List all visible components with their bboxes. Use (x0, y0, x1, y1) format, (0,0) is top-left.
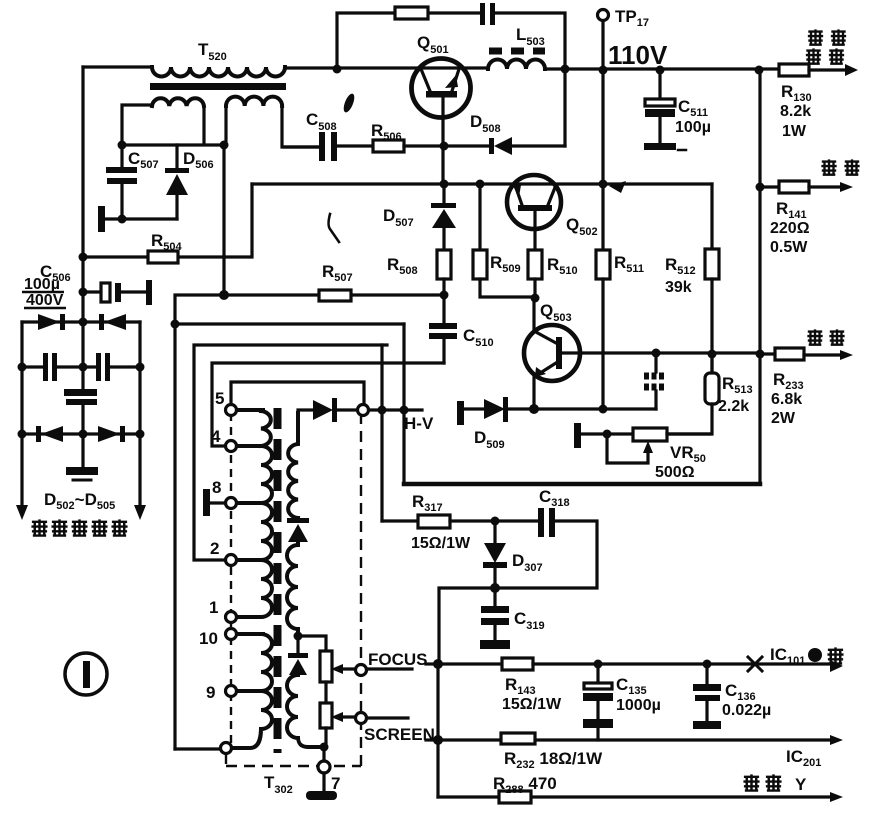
capacitor C506 (83, 283, 146, 302)
wire center tap down to R507 line (222, 145, 225, 295)
T302 HV winding middle section (287, 542, 298, 636)
wire right vertical x760 (758, 70, 761, 483)
inductor L503 (488, 60, 545, 70)
resistor (feedback, unlabeled) (395, 7, 428, 19)
label 频维选择 (806, 29, 846, 64)
pin circle H-V (358, 405, 369, 416)
resistor R288 (438, 791, 843, 803)
wire T302 pin5 loop to H-V node (231, 382, 364, 405)
T302 primary winding section 9-bottom (232, 691, 272, 748)
wire node row y145 (122, 143, 224, 146)
transistor Q503 (524, 325, 580, 381)
wire C507 D506 ground line (104, 217, 177, 220)
resistor R233 (760, 348, 853, 360)
svg-text:15Ω/1W: 15Ω/1W (502, 696, 562, 713)
node A junction dots y145 (118, 141, 127, 150)
wire bottom left row y748 (175, 747, 220, 750)
wire pin2 loop to y345 row (194, 345, 387, 560)
junction dot C136 (703, 660, 712, 669)
ground bridge (66, 467, 98, 480)
wire H-V output (369, 408, 422, 411)
inductor L503 core dashes (489, 48, 545, 55)
svg-text:10: 10 (199, 629, 218, 648)
svg-text:1W: 1W (782, 123, 807, 140)
svg-text:SCREEN: SCREEN (364, 725, 435, 744)
potentiometer VR50 (581, 428, 710, 463)
wire Q503 collector up (532, 298, 535, 331)
diode bridge D502-D505 top row (22, 314, 140, 330)
wire SCREEN stub (367, 716, 408, 719)
svg-text:1000µ: 1000µ (616, 697, 661, 714)
resistor R141 (760, 181, 853, 193)
ground bar D509 (457, 401, 464, 425)
wire long vertical x175 (175, 324, 404, 749)
diode D307 (483, 521, 507, 588)
junction dot y354 R233 (756, 350, 765, 359)
diode HV rectifier 1 (287, 518, 309, 542)
svg-text:H-V: H-V (404, 414, 434, 433)
symbol dot and glyph after IC101 (808, 647, 844, 664)
diode D508 (444, 137, 565, 155)
capacitor C510 (429, 295, 457, 363)
junction dot D307 C319 (490, 583, 500, 593)
junction dot VR50 left (603, 430, 612, 439)
ground bar C506 (146, 280, 152, 305)
capacitor C508 (284, 132, 373, 161)
T302 HV winding top and diode (298, 398, 357, 422)
ground bar C511 (644, 143, 676, 150)
wire secondary right-section right end to C508 (282, 106, 319, 147)
ink blob near C508 label (342, 92, 357, 114)
wire vertical x438 focus-screen-bottom (436, 664, 439, 797)
junction dot y353 cap (652, 349, 661, 358)
wire x382 vertical (380, 345, 383, 521)
transformer T520 secondary winding left section (152, 98, 204, 106)
svg-text:1: 1 (209, 598, 218, 617)
diode D507 (431, 184, 456, 250)
label 至消磁电路 (31, 519, 127, 536)
wire Q503 emitter down (532, 376, 535, 409)
junction dot x337 rail (333, 65, 342, 74)
pin circle FOCUS (356, 665, 367, 676)
svg-text:110V: 110V (608, 40, 668, 70)
junction dot R511 bottom (599, 405, 608, 414)
junction dot R317 D307 (491, 517, 500, 526)
junction dot rail Q501 base (440, 180, 449, 189)
junction dots bridge middle row (18, 363, 27, 372)
wire bridge left branch with arrow (16, 322, 28, 520)
bridge capacitors middle row (22, 353, 140, 381)
junction dot R504 left (79, 253, 88, 262)
svg-text:R288 470: R288 470 (493, 774, 557, 796)
wire collector rail y68 (285, 66, 488, 69)
wire bridge center to ground (81, 405, 84, 467)
T302 pin 8 (226, 498, 237, 509)
capacitor C136 (693, 664, 721, 729)
capacitor (feedback, unlabeled) (480, 3, 495, 25)
wire R507 row (175, 295, 444, 324)
T302 pin 4 (226, 441, 237, 452)
resistor R510 (528, 250, 542, 298)
ground bar left of C507 (98, 206, 105, 232)
wire screen pot to pin7 node (324, 728, 326, 747)
arrow IC101 (830, 660, 843, 672)
T302 core dashes (274, 408, 282, 753)
stray pen mark (329, 214, 340, 242)
potentiometer focus (320, 651, 332, 682)
wire FOCUS stub (367, 667, 412, 670)
junction dots bridge bottom row (18, 430, 27, 439)
svg-text:500Ω: 500Ω (655, 464, 695, 481)
wire top feedback loop (337, 13, 565, 146)
resistor R317 (382, 515, 538, 528)
wire HV tap to focus pot chain (298, 636, 326, 651)
resistor R504 (148, 251, 178, 263)
T302 pin 1 (226, 612, 237, 623)
transformer T520 core (150, 83, 286, 90)
T302 primary winding section 4-8 (237, 446, 272, 503)
diode D506 (165, 145, 189, 219)
label 低放 (821, 159, 859, 175)
ground bar T302 pin8 (203, 489, 225, 516)
junction dot R509 R510 (531, 294, 540, 303)
wire secondary right-section left end tap (224, 106, 227, 145)
junction dot x565 (561, 65, 570, 74)
circled 1 symbol (65, 653, 107, 695)
diode D509 (464, 397, 656, 422)
junction dot HV x382 (378, 406, 387, 415)
pin circle SCREEN (356, 713, 367, 724)
junction dot Q501 base (440, 142, 449, 151)
T302 pin 10 (226, 629, 237, 640)
svg-text:Y: Y (795, 775, 807, 794)
T302 primary winding section 8-2 (237, 503, 272, 560)
wire bridge right branch with arrow (134, 322, 146, 520)
capacitor C511 (645, 70, 675, 143)
svg-text:8.2k: 8.2k (780, 103, 811, 120)
junction dot pin7 node (320, 743, 329, 752)
svg-text:220Ω: 220Ω (770, 220, 810, 237)
test point TP17 (598, 10, 609, 185)
T302 pin column dashed line (230, 413, 232, 743)
T302 dashed box bottom and right (226, 415, 361, 766)
resistor R507 (319, 290, 351, 301)
wire x404 vertical (402, 324, 405, 483)
junction dot HV pot tap (294, 632, 303, 641)
wire Q502 base down (533, 211, 536, 250)
wire R504 row (83, 184, 252, 257)
T302 pin 9 (226, 686, 237, 697)
resistor R143 (438, 658, 832, 670)
junction dot x660 (656, 66, 665, 75)
capacitor C135 (583, 664, 613, 740)
svg-text:2W: 2W (771, 410, 796, 427)
junction dot SCREEN R232 (433, 735, 443, 745)
wiper arrow focus pot (331, 664, 356, 674)
svg-text:4: 4 (211, 427, 221, 446)
T302 primary winding section 10-9 (237, 634, 272, 691)
potentiometer screen (320, 703, 332, 728)
wire emitter rail y184 (252, 182, 712, 185)
svg-text:2.2k: 2.2k (718, 398, 749, 415)
wiper arrow screen pot (331, 712, 356, 722)
T302 HV winding upper section (288, 413, 298, 518)
diode bridge bottom row (22, 426, 140, 442)
junction dot C506 (79, 288, 88, 297)
wire C510 bottom to T302 pin4 (212, 363, 444, 446)
ground bar pin7 (306, 791, 337, 800)
X mark on IC101 line (748, 657, 762, 671)
transformer T520 primary winding (152, 67, 285, 77)
wire Q501 base down (441, 97, 444, 183)
junction dot y354 R512 (708, 350, 717, 359)
svg-text:39k: 39k (665, 279, 692, 296)
svg-text:15Ω/1W: 15Ω/1W (411, 535, 471, 552)
svg-text:400V: 400V (26, 292, 64, 309)
wire left main vertical x83 (81, 67, 84, 389)
arrow mark on rail (609, 181, 626, 193)
wire secondary left-section right end tap (202, 106, 205, 144)
resistor R509 (473, 184, 535, 297)
T302 primary winding section 5-4 (237, 410, 271, 446)
transformer T520 secondary winding right section (226, 97, 282, 106)
wire secondary left end to node (122, 105, 152, 145)
junction dot rail TP17 (599, 180, 608, 189)
T302 bottom left pin circle (221, 743, 232, 754)
svg-text:7: 7 (331, 774, 340, 793)
junction dot x603 (599, 66, 608, 75)
label 视放Y (743, 774, 807, 794)
T302 primary winding section 2-1 (237, 560, 272, 617)
wire FOCUS node stub (426, 662, 438, 665)
junction dot x175 y324 (171, 320, 180, 329)
wire Q503 base row y353 (562, 351, 760, 354)
diode HV rectifier 2 (288, 636, 308, 675)
junction dot C135 (594, 660, 603, 669)
transistor Q501 (412, 59, 471, 118)
svg-text:9: 9 (206, 683, 215, 702)
label C506 value (22, 276, 66, 309)
junction dot R141 (756, 183, 765, 192)
junction dot rail R509 (476, 180, 485, 189)
junction dot R507 left (219, 290, 229, 300)
label 解码 (807, 329, 844, 345)
capacitor bridge center (64, 389, 97, 405)
junction dot FOCUS R143 (433, 659, 443, 669)
svg-text:0.5W: 0.5W (770, 239, 808, 256)
capacitor C318 (439, 508, 597, 664)
T302 pin 5 (226, 405, 237, 416)
svg-text:100µ: 100µ (675, 119, 711, 136)
ground bar C319 (480, 640, 510, 649)
wire 110V rail right (545, 67, 779, 70)
svg-text:0.022µ: 0.022µ (722, 702, 771, 719)
junction dot R507 right (440, 291, 449, 300)
resistor R232 (438, 733, 843, 745)
resistor R506 (373, 140, 444, 152)
T302 pin 2 (226, 555, 237, 566)
wire SCREEN node stub (426, 738, 438, 741)
junction dot HV x404 (400, 406, 409, 415)
small capacitor at Q503 base (644, 353, 666, 409)
capacitor C507 (106, 145, 137, 219)
junction dot bridge top center (79, 318, 88, 327)
capacitor C319 (481, 588, 509, 640)
svg-text:100µ: 100µ (24, 276, 60, 293)
resistor R508 (437, 250, 451, 295)
junction dot x759 (755, 66, 764, 75)
svg-text:8: 8 (212, 478, 221, 497)
T302 pin 7 (318, 747, 330, 791)
resistor R513 (667, 354, 719, 434)
wire R130 output arrow (809, 68, 846, 71)
transistor Q502 (507, 175, 561, 229)
svg-text:6.8k: 6.8k (771, 391, 802, 408)
junction dot C507 ground (118, 215, 127, 224)
resistor R511 (596, 184, 610, 409)
junction dot D509 Q503 emitter (529, 404, 539, 414)
svg-text:FOCUS: FOCUS (368, 650, 428, 669)
resistor R512 (705, 184, 719, 373)
svg-text:2: 2 (210, 539, 219, 558)
wire between pots (324, 682, 327, 703)
ground bar VR50 (574, 423, 581, 448)
wire T520 primary left lead (83, 65, 152, 68)
resistor R130 (779, 64, 809, 76)
svg-text:5: 5 (215, 389, 224, 408)
T302 HV winding lower section (287, 675, 324, 747)
